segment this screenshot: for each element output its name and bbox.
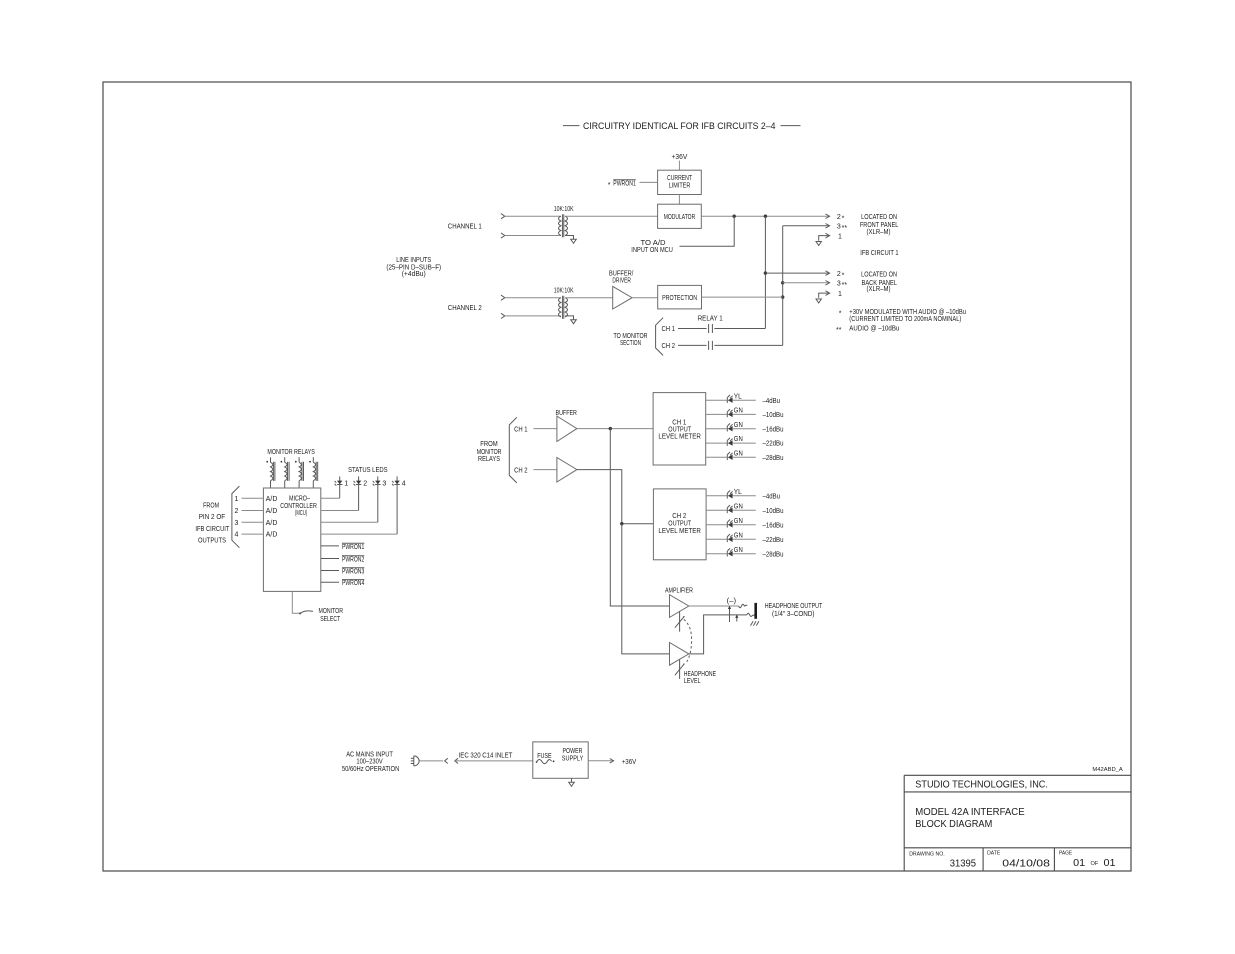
wire CH2 to buffer [534, 469, 557, 471]
svg-text:IEC 320 C14 INLET: IEC 320 C14 INLET [459, 752, 513, 759]
heading rule left [563, 125, 580, 127]
svg-text:PWRON4: PWRON4 [342, 580, 364, 587]
svg-text:SUPPLY: SUPPLY [562, 755, 584, 762]
svg-text:RELAY 1: RELAY 1 [698, 316, 723, 323]
switch monitor select [299, 612, 301, 614]
svg-text:04/10/08: 04/10/08 [1002, 859, 1050, 870]
wire PWRON1 out [321, 545, 339, 547]
gang link dashed [684, 619, 692, 661]
junction CH1 monitor tap [609, 427, 612, 430]
svg-text:GN: GN [734, 532, 743, 539]
meter CH1 LED GN -22dBu [706, 436, 784, 448]
meter CH1 LED GN -16dBu [706, 422, 784, 434]
svg-text:SECTION: SECTION [620, 340, 641, 347]
svg-text:1: 1 [344, 480, 348, 487]
svg-text:(–): (–) [727, 598, 737, 605]
wire front pin1 [819, 236, 830, 241]
svg-text:+36V: +36V [622, 759, 637, 766]
svg-text:YL: YL [734, 393, 742, 400]
svg-text:CHANNEL 2: CHANNEL 2 [448, 305, 482, 312]
svg-text:AC MAINS INPUT: AC MAINS INPUT [346, 752, 393, 759]
arrow front pin2 [826, 214, 830, 219]
junction node A/D tap [733, 215, 736, 218]
ground T2 [571, 320, 577, 324]
meter CH1 LED GN -28dBu [706, 450, 784, 462]
wire LED2 to MCU [321, 510, 359, 512]
status LED D1 [335, 476, 349, 498]
buffer amp CH1 [557, 416, 577, 441]
svg-text:GN: GN [734, 422, 743, 429]
junction back-2 [764, 271, 767, 274]
wire back pin1 [819, 293, 830, 298]
power supply box [533, 742, 588, 778]
wire PWRON4 out [321, 581, 339, 583]
svg-text:INPUT ON MCU: INPUT ON MCU [631, 247, 673, 254]
relay contact CH1 [708, 324, 710, 333]
meter CH2 LED YL -4dBu [706, 489, 780, 501]
meter CH1 LED YL -4dBu [706, 393, 780, 405]
svg-text:PWRON3: PWRON3 [342, 568, 364, 575]
svg-text:HEADPHONE: HEADPHONE [684, 671, 716, 678]
jack tip contact arrow [729, 606, 731, 622]
svg-text:+36V: +36V [672, 154, 688, 161]
input arrow CH1 + [501, 214, 505, 219]
svg-text:2: 2 [837, 214, 841, 221]
svg-text:A/D: A/D [266, 508, 278, 515]
jack tip squiggle [739, 604, 748, 607]
svg-text:01: 01 [1073, 858, 1085, 869]
relay coil K2 [281, 457, 290, 488]
jack ring squiggle [747, 613, 755, 616]
wire power supply ground [571, 778, 573, 782]
ground T1 [571, 239, 577, 243]
svg-text:AUDIO @ –10dBu: AUDIO @ –10dBu [849, 326, 899, 333]
svg-text:**: ** [836, 327, 842, 334]
wire CH1 - to T1 [505, 235, 561, 237]
border frame [103, 82, 1131, 871]
svg-text:A/D: A/D [266, 520, 278, 527]
svg-text:CURRENT: CURRENT [667, 175, 693, 182]
svg-text:+30V MODULATED WITH AUDIO @ –1: +30V MODULATED WITH AUDIO @ –10dBu [849, 309, 966, 316]
svg-text:LOCATED ON: LOCATED ON [861, 214, 897, 221]
svg-text:10K:10K: 10K:10K [554, 206, 574, 213]
svg-text:*: * [842, 273, 845, 280]
svg-text:STUDIO TECHNOLOGIES, INC.: STUDIO TECHNOLOGIES, INC. [915, 779, 1048, 790]
svg-text:OUTPUT: OUTPUT [668, 520, 691, 527]
svg-text:*: * [842, 216, 845, 223]
svg-text:PWRON1: PWRON1 [613, 180, 636, 187]
svg-text:(XLR–M): (XLR–M) [867, 286, 891, 293]
svg-text:MONITOR RELAYS: MONITOR RELAYS [267, 449, 315, 456]
wire T1 secondary bottom to ground [565, 236, 573, 240]
meter CH1 LED GN -10dBu [706, 408, 784, 420]
svg-text:A/D: A/D [266, 496, 278, 503]
svg-text:(CURRENT LIMITED TO 200mA NOMI: (CURRENT LIMITED TO 200mA NOMINAL) [849, 316, 961, 323]
svg-text:CH 2: CH 2 [662, 343, 676, 350]
svg-text:RELAYS: RELAYS [478, 456, 500, 463]
junction CH2 meter tap [620, 522, 623, 525]
headphone amp CH2 [670, 643, 689, 666]
svg-text:LOCATED ON: LOCATED ON [861, 271, 897, 278]
wire +36V output [588, 760, 613, 762]
pot gain CH2 [679, 660, 681, 679]
svg-text:A/D: A/D [266, 532, 278, 539]
wire amp CH1 to jack tip [689, 605, 739, 607]
fuse symbol [536, 761, 538, 763]
wire CH2 + to T2 [505, 297, 561, 299]
svg-text:DRIVER: DRIVER [612, 277, 631, 284]
svg-text:LEVEL METER: LEVEL METER [658, 434, 701, 441]
wire T2 to buffer [565, 297, 613, 299]
svg-text:GN: GN [734, 408, 743, 415]
transformer T1 10K:10K [554, 206, 574, 237]
protection box [658, 285, 702, 309]
input arrow CH1 - [501, 233, 505, 238]
svg-text:1: 1 [838, 291, 842, 298]
headphone amp CH1 [670, 595, 689, 618]
pot gain CH1 [679, 611, 681, 631]
wire CH1 to buffer [534, 428, 557, 430]
svg-text:–16dBu: –16dBu [763, 522, 784, 529]
svg-text:CH 1: CH 1 [662, 326, 676, 333]
svg-text:IFB CIRCUIT 1: IFB CIRCUIT 1 [860, 250, 898, 257]
svg-text:AMPLIFIER: AMPLIFIER [665, 587, 693, 594]
svg-text:(MCU): (MCU) [295, 510, 307, 517]
wire back pin3 [783, 282, 830, 284]
svg-text:TO MONITOR: TO MONITOR [614, 333, 648, 340]
junction node front-2 trunk [764, 215, 767, 218]
svg-text:DRAWING NO.: DRAWING NO. [909, 851, 945, 857]
current limiter box [658, 170, 702, 194]
svg-text:3: 3 [235, 520, 239, 527]
svg-text:(XLR–M): (XLR–M) [867, 229, 891, 236]
wire CH1 buffer to meter [577, 428, 653, 430]
meter CH2 LED GN -28dBu [706, 547, 783, 559]
svg-text:IFB CIRCUIT: IFB CIRCUIT [195, 526, 230, 533]
svg-text:–16dBu: –16dBu [763, 426, 784, 433]
svg-text:100–230V: 100–230V [356, 759, 383, 766]
svg-text:2: 2 [837, 271, 841, 278]
svg-text:SELECT: SELECT [320, 616, 341, 623]
chassis ground [751, 621, 759, 625]
svg-text:CH 1: CH 1 [672, 419, 686, 426]
svg-text:10K:10K: 10K:10K [554, 288, 574, 295]
svg-text:3: 3 [837, 224, 841, 231]
svg-text:*: * [608, 182, 611, 189]
wire relay CH1 right [714, 328, 765, 330]
svg-text:–22dBu: –22dBu [763, 441, 784, 448]
svg-text:CHANNEL 1: CHANNEL 1 [448, 224, 482, 231]
input arrow CH2 - [501, 313, 505, 318]
wire inlet to power supply [455, 760, 533, 762]
status LED D4 [392, 476, 406, 534]
wire PWRON1 to current limiter [640, 181, 658, 183]
svg-text:50/60Hz OPERATION: 50/60Hz OPERATION [342, 766, 399, 773]
meter box CH2 [653, 489, 706, 560]
status LED D3 [373, 476, 387, 522]
svg-text:CH 1: CH 1 [514, 426, 528, 433]
ground power supply [569, 782, 575, 786]
title block lines [904, 775, 1131, 871]
svg-text:MONITOR: MONITOR [319, 608, 344, 615]
svg-text:BUFFER: BUFFER [556, 410, 577, 417]
heading rule right [781, 125, 801, 127]
svg-text:LIMITER: LIMITER [669, 183, 691, 190]
transformer T2 10K:10K [554, 288, 574, 319]
svg-text:FROM: FROM [480, 441, 498, 448]
relay coil K1 [266, 457, 275, 488]
svg-text:**: ** [842, 282, 848, 289]
svg-text:GN: GN [734, 547, 743, 554]
svg-text:MICRO–: MICRO– [289, 496, 310, 503]
svg-text:OUTPUT: OUTPUT [668, 427, 691, 434]
svg-text:PIN 2 OF: PIN 2 OF [199, 514, 226, 521]
svg-text:2: 2 [363, 480, 367, 487]
wire relay CH1 left [678, 328, 707, 330]
wire back pin2 [765, 272, 829, 274]
svg-text:PAGE: PAGE [1059, 851, 1072, 857]
junction protection out [781, 295, 784, 298]
svg-text:LEVEL: LEVEL [684, 678, 701, 685]
meter CH2 LED GN -16dBu [706, 518, 783, 530]
wire relay CH2 left [678, 344, 707, 346]
svg-text:OF: OF [1091, 861, 1099, 867]
connector chevron inlet side [455, 758, 458, 763]
wire CH1 monitor down to amplifier [610, 429, 669, 606]
jack sleeve bar [754, 603, 757, 619]
buffer amp CH2 [557, 458, 577, 483]
svg-text:GN: GN [734, 450, 743, 457]
connector chevron plug side [445, 758, 448, 763]
svg-text:31395: 31395 [950, 859, 977, 870]
svg-text:FROM: FROM [203, 502, 219, 509]
wire current limiter to modulator [678, 195, 680, 205]
meter CH2 LED GN -22dBu [706, 532, 783, 544]
wire modulator output [701, 215, 829, 217]
wire relay CH2 right [714, 344, 782, 346]
svg-text:MODEL 42A INTERFACE: MODEL 42A INTERFACE [915, 807, 1025, 818]
svg-text:01: 01 [1104, 858, 1116, 869]
svg-text:4: 4 [402, 480, 406, 487]
svg-text:–10dBu: –10dBu [763, 412, 784, 419]
svg-text:3: 3 [382, 480, 386, 487]
ground front pin1 [816, 242, 821, 246]
svg-text:LEVEL METER: LEVEL METER [658, 528, 701, 535]
wire monitor select [292, 591, 299, 613]
wire T1 to modulator [565, 215, 658, 217]
ground back pin1 [816, 299, 821, 303]
wire LED1 to MCU [321, 497, 340, 499]
microcontroller U1 MCU box [263, 488, 320, 591]
svg-text:GN: GN [734, 436, 743, 443]
svg-text:–22dBu: –22dBu [763, 537, 784, 544]
svg-text:M42ABD_A: M42ABD_A [1092, 767, 1123, 773]
svg-text:*: * [839, 310, 842, 317]
svg-text:YL: YL [734, 489, 742, 496]
trunk wire x=782.7 audio [782, 226, 784, 346]
relay coil K4 [309, 457, 318, 488]
buffer/driver amp triangle [613, 286, 632, 309]
wire CH2 monitor down to amplifier [622, 524, 670, 654]
svg-text:GN: GN [734, 503, 743, 510]
junction back-3 [781, 281, 784, 284]
svg-text:STATUS LEDS: STATUS LEDS [348, 467, 388, 474]
trunk wire x=765.4 30V [764, 216, 766, 328]
AC plug symbol [411, 756, 419, 766]
wire CH2 - to T2 [505, 315, 561, 317]
wire PWRON3 out [321, 570, 339, 572]
svg-text:PWRON1: PWRON1 [342, 544, 364, 551]
relay coil K3 [295, 457, 304, 488]
svg-text:POWER: POWER [563, 748, 583, 755]
svg-text:OUTPUTS: OUTPUTS [198, 538, 226, 545]
svg-text:MODULATOR: MODULATOR [664, 214, 696, 221]
svg-text:–28dBu: –28dBu [763, 455, 784, 462]
svg-text:(1/4″ 3–COND): (1/4″ 3–COND) [772, 611, 815, 618]
wire LED4 to MCU [321, 533, 397, 535]
brace from monitor relays [509, 417, 517, 483]
svg-text:PWRON2: PWRON2 [342, 556, 364, 563]
svg-text:–4dBu: –4dBu [763, 493, 781, 500]
modulator box [658, 204, 702, 228]
brace IFB inputs [232, 486, 240, 548]
meter box CH1 [653, 393, 706, 465]
svg-text:(+4dBu): (+4dBu) [402, 271, 426, 278]
wire to A/D input on MCU [680, 216, 735, 246]
wire LED3 to MCU [321, 521, 378, 523]
svg-text:4: 4 [235, 532, 239, 539]
svg-text:1: 1 [235, 496, 239, 503]
wire buffer to protection [632, 297, 658, 299]
svg-text:CIRCUITRY IDENTICAL FOR IFB CI: CIRCUITRY IDENTICAL FOR IFB CIRCUITS 2–4 [583, 121, 776, 131]
wire CH1 + to T1 [505, 215, 561, 217]
svg-text:–28dBu: –28dBu [763, 551, 784, 558]
svg-text:BLOCK DIAGRAM: BLOCK DIAGRAM [915, 819, 992, 830]
wire T2 secondary bottom to ground [565, 316, 573, 320]
wire front pin3 [783, 225, 830, 227]
wire CH2 buffer to meter [577, 470, 654, 524]
svg-text:DATE: DATE [987, 851, 1000, 857]
svg-text:–4dBu: –4dBu [763, 398, 781, 405]
svg-text:PROTECTION: PROTECTION [662, 295, 697, 302]
svg-text:2: 2 [235, 508, 239, 515]
wire amp CH2 to jack ring [689, 615, 747, 654]
svg-text:**: ** [842, 225, 848, 232]
svg-text:TO A/D: TO A/D [641, 240, 666, 247]
wire PWRON2 out [321, 558, 339, 560]
input arrow CH2 + [501, 295, 505, 300]
jack ring contact arrow [736, 615, 738, 621]
svg-text:GN: GN [734, 518, 743, 525]
svg-text:MONITOR: MONITOR [477, 449, 502, 456]
svg-text:HEADPHONE OUTPUT: HEADPHONE OUTPUT [765, 603, 823, 610]
wire +36V to current limiter [678, 161, 680, 171]
wire protection output [702, 296, 783, 298]
wire plug to connector [420, 760, 444, 762]
meter CH2 LED GN -10dBu [706, 503, 783, 515]
svg-text:CH 2: CH 2 [514, 467, 528, 474]
svg-text:3: 3 [837, 281, 841, 288]
svg-text:–10dBu: –10dBu [763, 508, 784, 515]
svg-text:1: 1 [838, 233, 842, 240]
status LED D2 [354, 476, 368, 510]
svg-text:LINE INPUTS: LINE INPUTS [396, 257, 431, 264]
svg-text:CH 2: CH 2 [672, 513, 686, 520]
brace monitor feed [656, 318, 664, 356]
relay contact CH2 [708, 341, 710, 350]
